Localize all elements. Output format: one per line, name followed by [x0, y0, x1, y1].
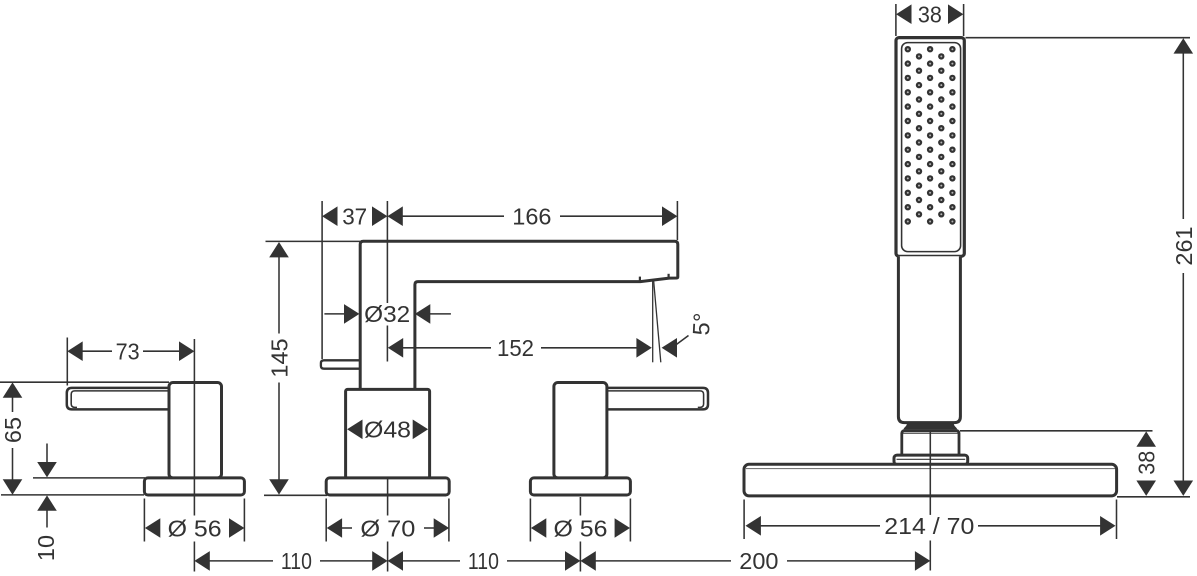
spout outlet 5 degree line	[654, 281, 661, 362]
dim 10 lower arrow stem	[46, 510, 48, 527]
dim 65 top reference line	[0, 381, 169, 383]
spout centerline lower	[387, 478, 389, 516]
right handle lever	[589, 388, 708, 410]
dim 145 top reference line	[266, 240, 361, 242]
spout base block	[346, 389, 430, 478]
dim 261 top reference line	[966, 37, 1191, 39]
dim diameter56-right right extension line	[629, 499, 631, 542]
spout body outline	[360, 241, 678, 389]
svg-text:37: 37	[342, 204, 367, 230]
right handle centerline upper	[579, 497, 581, 516]
dim 200 line right segment	[787, 560, 915, 562]
dim diameter70 right arrow	[434, 518, 449, 538]
dim 65 line upper segment	[12, 397, 14, 412]
dim 110b line left segment	[403, 560, 460, 562]
dim 38-right bottom arrow	[1136, 481, 1156, 496]
dim 10 upper arrow	[37, 462, 57, 477]
dim 37 left arrow	[322, 206, 337, 226]
dim 152 right arrow	[636, 338, 651, 358]
dim 166 right arrow	[662, 206, 677, 226]
dim 166 right extension line	[676, 201, 678, 240]
svg-text:38: 38	[918, 2, 942, 28]
dim diameter48 right arrow	[413, 420, 428, 440]
dim 73 right arrow	[179, 341, 194, 361]
dim 166 left arrow	[387, 206, 402, 226]
dim 110b right arrow	[565, 551, 580, 571]
dim diameter56-right left arrow	[531, 518, 546, 538]
dim 65 top arrow	[3, 382, 23, 397]
dim diameter32 right arrow	[415, 304, 430, 324]
dim 214-70 right arrow	[1100, 516, 1115, 536]
left handle lever	[67, 388, 172, 410]
right handle centerline lower	[579, 542, 581, 572]
dim 65 bottom arrow	[3, 479, 23, 494]
dim 152 line left segment	[403, 347, 491, 349]
hand shower flange inner line	[897, 458, 966, 460]
dim 110b left arrow	[388, 551, 403, 571]
dim 200 right arrow	[915, 551, 930, 571]
svg-text:110: 110	[281, 548, 312, 574]
dim 10 upper arrow stem	[46, 444, 48, 463]
hand shower handle	[898, 256, 960, 422]
dim 110b line right segment	[507, 560, 565, 562]
svg-text:Ø32: Ø32	[364, 301, 410, 327]
dim 38 top left extension line	[895, 4, 897, 36]
dim diameter56-left right arrow	[229, 518, 244, 538]
shower centerline upper	[929, 431, 931, 515]
dim 261 line upper segment	[1182, 53, 1184, 219]
svg-text:38: 38	[1134, 451, 1160, 475]
svg-text:Ø 70: Ø 70	[360, 515, 415, 541]
dim diameter56-left right extension line	[243, 499, 245, 542]
svg-text:Ø 56: Ø 56	[554, 515, 608, 541]
dim 38-right top arrow	[1136, 431, 1156, 446]
dim 37 right arrow	[372, 206, 387, 226]
dim 214-70 left extension line	[743, 500, 745, 540]
base plate inner edge line	[746, 468, 1115, 470]
hand shower holder flange	[894, 455, 968, 464]
dim diameter32 left tail	[324, 313, 345, 315]
dim diameter56-right left extension line	[529, 499, 531, 542]
right handle escutcheon flange	[530, 478, 630, 495]
svg-text:214 / 70: 214 / 70	[884, 513, 974, 539]
dim diameter56-left left arrow	[145, 518, 160, 538]
base plate	[744, 464, 1117, 496]
hand shower holder nut	[902, 431, 959, 457]
spout centerline bottom	[387, 542, 389, 572]
svg-text:65: 65	[0, 417, 26, 443]
left handle lever inner cap line	[71, 391, 168, 408]
dim 38 top left arrow	[896, 4, 911, 24]
dim 166 line right segment	[560, 215, 662, 217]
dim diameter32 left arrow	[344, 304, 359, 324]
dim 214-70 left arrow	[746, 516, 761, 536]
deck reference line left	[1, 494, 144, 496]
dim diameter32 right tail	[430, 313, 451, 315]
dim 73 line right segment	[143, 350, 179, 352]
dim 145 line upper segment	[278, 257, 280, 334]
dim diameter56-left left extension line	[143, 499, 145, 542]
dim diameter70 line right segment	[424, 527, 434, 529]
dim 145 bottom arrow	[269, 479, 289, 494]
deck reference line right	[1117, 496, 1190, 498]
dim 152 left arrow	[388, 338, 403, 358]
dim diameter48 left arrow	[347, 420, 362, 440]
hand shower black collar	[903, 423, 957, 429]
hand shower spray face frame	[902, 43, 961, 252]
dim 110a line left segment	[209, 560, 273, 562]
dim 261 line lower segment	[1182, 273, 1184, 481]
svg-text:110: 110	[468, 548, 499, 574]
left handle centerline lower	[193, 542, 195, 572]
dim diameter70 right extension line	[448, 499, 450, 542]
dim 10 lower arrow	[37, 495, 57, 510]
dim 110a right arrow	[372, 551, 387, 571]
deck reference line center	[264, 494, 327, 496]
left handle escutcheon flange	[144, 478, 244, 495]
shower centerline lower	[929, 541, 931, 571]
dim 38-right top reference line	[960, 430, 1153, 432]
svg-text:152: 152	[497, 335, 534, 361]
dim 214-70 line right segment	[978, 525, 1101, 527]
spout outlet tick left	[639, 277, 641, 282]
dim diameter70 left extension line	[325, 499, 327, 542]
spout outlet vertical reference line	[652, 281, 654, 362]
dim 200 line left segment	[595, 560, 731, 562]
dim 110a left arrow	[194, 551, 209, 571]
spout centerline middle	[386, 326, 388, 362]
spout rear tab	[321, 360, 361, 368]
dim 73 line left segment	[82, 350, 112, 352]
right handle body	[554, 383, 607, 479]
dim 145 top arrow	[269, 242, 289, 257]
dim 73 left arrow	[67, 341, 82, 361]
dim 261 bottom arrow	[1174, 481, 1194, 496]
dim 38 top right extension line	[963, 4, 965, 36]
svg-text:200: 200	[739, 548, 778, 574]
dim 214-70 right extension line	[1116, 500, 1118, 540]
dim 38 top right arrow	[948, 4, 963, 24]
svg-text:73: 73	[116, 339, 140, 365]
dim 73 left extension line	[66, 338, 68, 386]
dim 214-70 line left segment	[761, 525, 881, 527]
spout outlet tick right	[667, 274, 669, 278]
dim diameter70 line left segment	[342, 527, 352, 529]
left handle body	[169, 383, 222, 479]
dim 65 line lower segment	[12, 448, 14, 480]
dim 5deg leader line	[675, 336, 689, 346]
right handle lever inner cap line	[592, 391, 704, 408]
svg-text:Ø 56: Ø 56	[168, 515, 222, 541]
hand shower nut top line	[903, 432, 958, 434]
dim 166 line left segment	[402, 215, 504, 217]
dim 145 line lower segment	[278, 383, 280, 480]
hand shower head	[896, 38, 964, 257]
spout centerline upper	[386, 201, 388, 303]
dim 200 left arrow	[580, 551, 595, 571]
left handle centerline upper	[193, 339, 195, 516]
dim 110a line right segment	[320, 560, 373, 562]
svg-text:166: 166	[512, 204, 551, 230]
svg-text:5°: 5°	[688, 312, 715, 336]
dim 10 top reference line	[33, 477, 145, 479]
svg-text:10: 10	[33, 535, 59, 561]
svg-text:145: 145	[267, 338, 293, 377]
dim 152 line right segment	[541, 347, 638, 349]
svg-text:Ø48: Ø48	[364, 417, 411, 443]
svg-text:261: 261	[1171, 226, 1197, 265]
dim 5deg opposing arrow	[662, 338, 677, 358]
dim 37 left extension line	[321, 201, 323, 359]
dim diameter70 left arrow	[327, 518, 342, 538]
dim diameter56-right right arrow	[615, 518, 630, 538]
spout escutcheon flange	[326, 478, 449, 495]
hand shower spray nozzle dots	[905, 46, 956, 225]
dim 261 top arrow	[1174, 38, 1194, 53]
